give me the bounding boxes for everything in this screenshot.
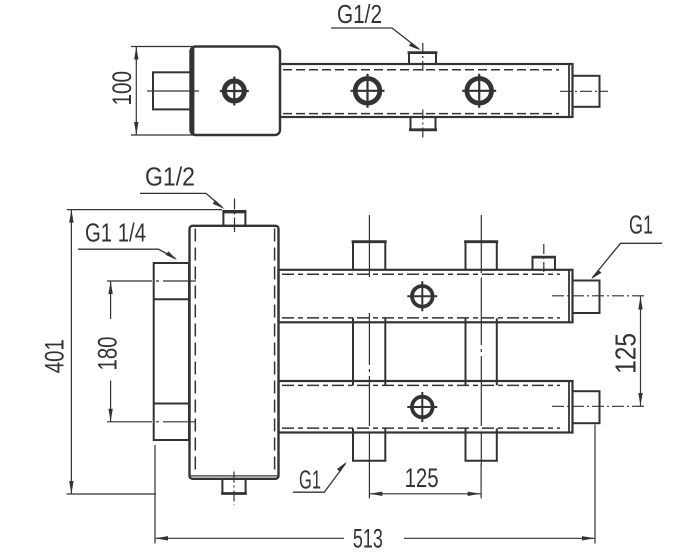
svg-text:125: 125 [405,463,439,493]
lower beam hidden line bottom [282,427,560,429]
riser pipe 1 centerline [368,215,370,465]
body inner bottom line [191,475,278,477]
body bottom stub G1 [222,479,245,494]
small stub on upper beam (right) [533,257,556,270]
bottom stub centerline [422,110,424,138]
flange thick left edge [191,48,195,135]
svg-text:100: 100 [107,71,137,106]
upper fitting G1 [573,281,600,314]
lower beam end cap [568,382,570,432]
svg-text:G1/2: G1/2 [145,162,195,192]
body inner wall right (hidden) [274,229,276,477]
dimension line 125 right [640,297,642,407]
left flange plate (G1 1/4 ports) [154,263,189,440]
riser pipe 1 lower section [353,428,385,461]
port circle C4 on upper beam [412,286,433,307]
body top stub G1/2 [223,211,245,226]
svg-text:125: 125 [611,333,643,374]
side stub centerline [147,90,199,92]
extension line pipe1 (dim 125 bottom) [368,464,370,498]
lower beam centerline (right) [552,405,647,407]
upper beam end cap [568,270,570,321]
svg-text:513: 513 [353,524,383,554]
upper beam hidden line bottom [282,317,560,319]
beam end cap line [568,65,570,117]
upper beam hidden line top [282,273,560,275]
riser pipe 2 stub (above upper beam) [466,242,497,270]
dimension line 401 [70,210,72,494]
lower port centerline [107,421,196,423]
upper port centerline [107,280,196,282]
main beam (top view) [280,64,573,117]
body bottom stub centerline [233,472,235,506]
lower fitting G1 [573,391,600,423]
extension line top (dim 100) [131,46,196,48]
extension line pipe2 (dim 125 bottom) [480,464,482,498]
svg-text:180: 180 [93,337,123,371]
port circle C1 on flange [224,81,244,101]
right fitting (top view, G1) [573,76,600,107]
svg-text:G1: G1 [629,210,653,240]
riser pipe 1 stub (above upper beam) [353,242,385,270]
svg-text:G1 1/4: G1 1/4 [85,218,146,248]
port circle C3 on beam [467,79,492,104]
flange body (top view) [191,47,281,136]
extension line left (dim 513) [154,445,156,544]
svg-text:401: 401 [40,339,70,373]
separator body [190,226,279,479]
lower beam (front view) [279,381,573,433]
svg-text:G1/2: G1/2 [337,0,382,29]
plate divider upper [154,298,189,300]
riser pipe 2 middle section [466,318,497,385]
hidden line lower [283,113,559,115]
body inner wall left (hidden) [194,229,196,477]
plate divider lower [154,403,189,405]
svg-text:G1: G1 [299,465,321,495]
dimension line 100 [135,47,137,136]
fitting centerline [560,90,608,92]
extension line top (dim 401) [67,209,222,211]
riser pipe 2 lower section [466,428,497,461]
side stub (G1 1/4 port, side view) [153,72,191,109]
extension line bottom (dim 401) [67,493,156,495]
lower beam hidden line top [282,384,560,386]
body top stub centerline [234,199,236,233]
top stub centerline [422,43,424,72]
upper beam centerline (right) [552,295,647,297]
dimension line 180 [110,281,112,319]
hidden line upper [283,69,559,71]
top stub G1/2 (top view) [409,53,436,65]
upper beam (front view) [279,270,573,323]
extension line bottom (dim 100) [131,134,196,136]
dimension line 513 [155,537,595,539]
bottom stub G1/2 (top view) [411,117,436,130]
riser pipe 2 centerline [480,215,482,465]
port circle C2 on beam [355,79,380,104]
riser pipe 1 middle section [353,318,385,385]
port circle C5 on lower beam [412,397,433,418]
extension line right (dim 513) [594,425,596,544]
small stub centerline [543,244,545,274]
dimension line 125 bottom [369,493,480,495]
